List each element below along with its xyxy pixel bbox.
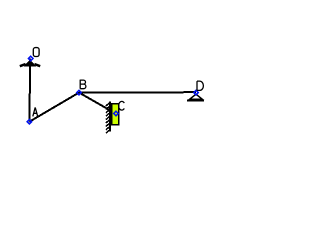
node O — [28, 56, 33, 61]
wire link B-C — [79, 93, 116, 114]
ground support at D — [187, 94, 204, 101]
label O — [33, 48, 39, 57]
node A — [27, 119, 32, 124]
label A — [33, 107, 38, 116]
slider block at C — [112, 104, 119, 125]
node B — [77, 90, 82, 95]
ground support at O — [20, 60, 40, 67]
slider guide with hatching at C — [106, 102, 110, 134]
label D — [197, 81, 203, 90]
wire link B-D — [79, 91, 196, 94]
node C — [114, 111, 119, 116]
wire link O-A — [28, 59, 31, 122]
label C — [119, 101, 125, 110]
wire link A-B — [29, 93, 79, 122]
node D — [194, 90, 199, 95]
label B — [80, 80, 86, 89]
